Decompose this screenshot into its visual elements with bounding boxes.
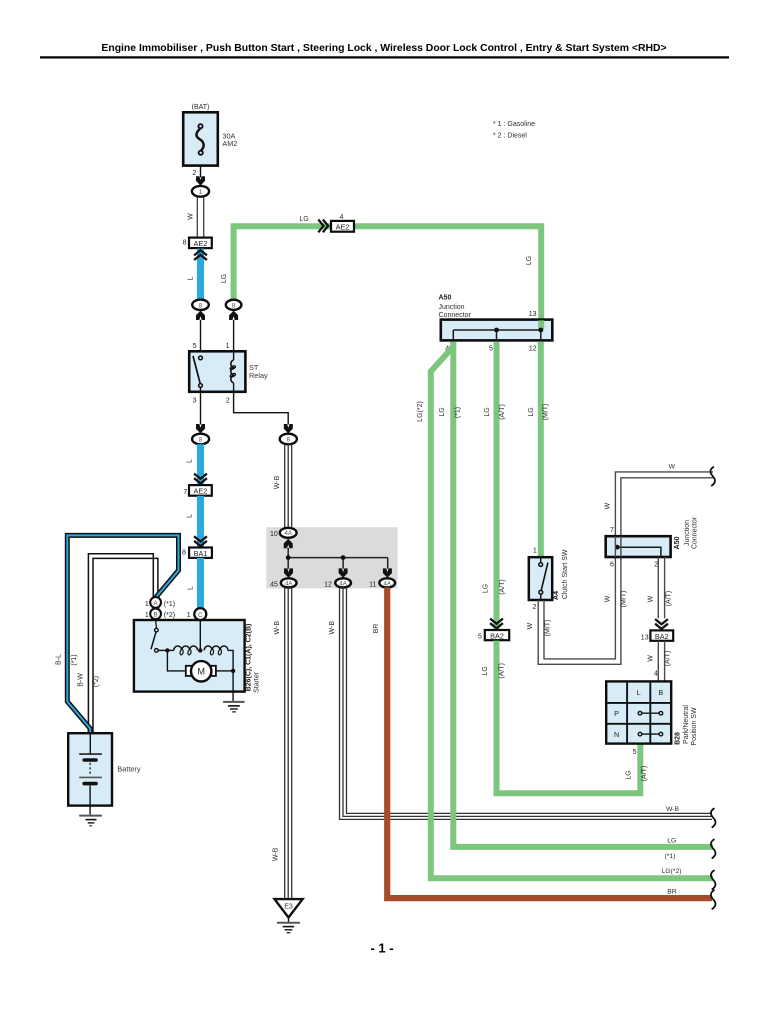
svg-text:LG: LG	[299, 216, 308, 223]
starter coil 1	[174, 646, 198, 650]
wire to relay pin 1	[233, 320, 235, 352]
svg-text:(M/T): (M/T)	[543, 404, 550, 421]
wire relay pin2 to right	[234, 392, 289, 425]
svg-text:1: 1	[533, 548, 537, 555]
arrow into connector 1	[196, 176, 205, 185]
connector AE2 (8)	[189, 238, 212, 249]
break symbol W-B	[711, 808, 716, 827]
ground E3	[275, 899, 303, 917]
wire W (M/T) double line	[544, 472, 713, 659]
wire W-B triple to E3	[285, 587, 292, 899]
svg-text:W: W	[604, 595, 611, 602]
starter box	[134, 620, 245, 692]
motor brushes	[186, 666, 192, 676]
wire LG (A/T) upper	[494, 342, 500, 630]
svg-text:B26(C), C1(A), C2(B): B26(C), C1(A), C2(B)	[246, 624, 253, 692]
break symbol BR	[711, 890, 716, 909]
svg-text:(A/T): (A/T)	[499, 404, 506, 420]
svg-text:13: 13	[641, 634, 649, 641]
wire LG(*2) branch	[431, 342, 713, 878]
wire B-W inner hook	[88, 554, 153, 733]
wire LG (M/T) to clutch SW	[538, 342, 544, 557]
svg-text:(BAT): (BAT)	[192, 104, 210, 111]
blue wire to C	[197, 558, 204, 608]
chevrons below AE2	[194, 250, 207, 260]
wire to relay pin 5	[200, 320, 202, 356]
A50-2 through lines redrawn over box	[614, 536, 616, 557]
svg-text:B: B	[154, 611, 158, 618]
svg-text:LG: LG	[484, 407, 491, 416]
svg-text:W: W	[648, 655, 655, 662]
svg-text:B: B	[658, 688, 663, 697]
arrow into ellipse 8 right	[284, 424, 293, 433]
svg-text:Junction: Junction	[439, 304, 465, 311]
svg-text:Position SW: Position SW	[691, 707, 698, 746]
svg-text:8: 8	[182, 549, 186, 556]
svg-text:(A/T): (A/T)	[665, 651, 672, 667]
svg-text:4A: 4A	[383, 580, 391, 587]
relay switch	[193, 356, 200, 384]
svg-text:5: 5	[489, 345, 493, 352]
arrow below green ellipse 8	[229, 311, 238, 320]
svg-text:Starter: Starter	[253, 671, 260, 693]
svg-text:W: W	[605, 502, 612, 509]
svg-text:BR: BR	[373, 624, 380, 634]
svg-text:A50: A50	[439, 295, 452, 302]
svg-text:AE2: AE2	[194, 487, 208, 496]
A50 junction connector box	[441, 320, 553, 341]
svg-text:BA1: BA1	[194, 549, 208, 558]
junction block grey box	[266, 527, 397, 588]
svg-text:BR: BR	[667, 889, 677, 896]
battery ground	[79, 815, 102, 817]
chevrons above BA1	[194, 536, 207, 546]
break symbol LG(*2)	[711, 870, 716, 889]
svg-text:* 2 : Diesel: * 2 : Diesel	[493, 133, 527, 140]
svg-text:7: 7	[183, 489, 187, 496]
svg-text:4A: 4A	[339, 580, 347, 587]
svg-text:(A/T): (A/T)	[641, 766, 648, 782]
wire relay pin3 down	[200, 392, 202, 425]
connector ellipse 8 right	[280, 434, 297, 445]
blue wire below ellipse	[197, 444, 204, 485]
battery cells	[89, 733, 91, 753]
wire L blue	[197, 249, 204, 300]
wire from C into coil junction	[199, 620, 201, 650]
svg-text:W-B: W-B	[273, 847, 280, 861]
svg-text:L: L	[187, 459, 194, 463]
chevrons above BA2(13)	[655, 619, 668, 629]
svg-text:N: N	[614, 730, 619, 739]
svg-text:Connector: Connector	[692, 516, 699, 549]
svg-text:3: 3	[193, 397, 197, 404]
svg-text:7: 7	[610, 527, 614, 534]
connector ellipse 8 (green)	[226, 300, 242, 310]
title underline	[40, 56, 729, 58]
svg-text:BA2: BA2	[655, 632, 669, 641]
clutch SW contacts	[540, 557, 542, 562]
svg-text:5: 5	[193, 343, 197, 350]
connector BA1	[189, 548, 212, 558]
svg-text:2: 2	[532, 604, 536, 611]
break symbol W	[710, 467, 715, 486]
svg-text:- 1 -: - 1 -	[370, 941, 393, 956]
svg-text:(A/T): (A/T)	[499, 579, 506, 595]
connector AE2 (4)	[331, 221, 354, 232]
wire W (A/T) from A50-2 pin 2	[657, 557, 659, 618]
arrows into bottom 4A ellipses	[284, 568, 293, 577]
svg-text:1: 1	[145, 612, 149, 619]
svg-text:P: P	[614, 709, 619, 718]
starter coil 2	[204, 646, 228, 650]
starter wire to coil junction	[158, 649, 174, 651]
arrow below 4A(10)	[284, 539, 293, 548]
svg-text:13: 13	[529, 311, 537, 318]
motor M	[191, 661, 211, 681]
connector ellipse 1	[192, 186, 209, 197]
svg-text:Junction: Junction	[684, 520, 691, 546]
svg-text:1: 1	[187, 612, 191, 619]
park/neutral position SW grid	[606, 681, 671, 743]
svg-text:W: W	[527, 622, 534, 629]
svg-text:4: 4	[654, 671, 658, 678]
svg-text:* 1 : Gasoline: * 1 : Gasoline	[493, 121, 535, 128]
svg-text:LG: LG	[528, 407, 535, 416]
ST relay box	[189, 351, 245, 392]
svg-text:12: 12	[324, 581, 332, 588]
svg-text:Battery: Battery	[117, 764, 140, 773]
svg-text:45: 45	[270, 581, 278, 588]
svg-text:L: L	[188, 276, 195, 280]
clutch start SW box	[529, 557, 552, 600]
A50-2 internal wire	[617, 547, 661, 557]
svg-text:1: 1	[226, 343, 230, 350]
starter switch	[155, 619, 158, 628]
connector ellipse 4A (12)	[335, 578, 351, 587]
wire B-L outer hook	[67, 535, 178, 733]
svg-text:8: 8	[183, 239, 187, 246]
coil to right junction	[228, 650, 233, 691]
svg-text:L: L	[187, 514, 194, 518]
PNP N row contacts	[640, 733, 661, 735]
svg-text:A4: A4	[553, 591, 560, 600]
svg-text:W-B: W-B	[666, 806, 680, 813]
svg-text:LG: LG	[625, 770, 632, 779]
svg-text:L: L	[637, 688, 641, 697]
break symbol LG	[711, 839, 716, 858]
internal wires of junction block	[288, 548, 388, 569]
svg-text:LG(*2): LG(*2)	[661, 868, 681, 875]
wire W-B triple from ellipse8 to 4A	[285, 444, 292, 528]
svg-text:E3: E3	[284, 903, 293, 910]
svg-text:B-W: B-W	[77, 673, 84, 687]
svg-text:Park/Neutral: Park/Neutral	[683, 705, 690, 744]
svg-text:LG: LG	[483, 584, 490, 593]
svg-text:Engine Immobiliser , Push Butt: Engine Immobiliser , Push Button Start ,…	[101, 43, 666, 54]
A50 junction connector 2 box	[606, 536, 671, 557]
svg-text:W-B: W-B	[274, 621, 281, 635]
green LG top path	[234, 226, 542, 319]
chevrons above AE2(7)	[194, 474, 207, 484]
svg-text:(*1): (*1)	[455, 407, 462, 418]
svg-text:(M/T): (M/T)	[621, 591, 628, 608]
connector ellipse 8 (blue)	[192, 300, 209, 310]
svg-text:LG: LG	[221, 274, 228, 283]
connector ellipse 4A (10)	[280, 528, 297, 538]
svg-text:(*1): (*1)	[665, 853, 676, 860]
svg-text:B28: B28	[674, 732, 681, 745]
connector BA2 (13)	[650, 630, 673, 640]
svg-text:5: 5	[478, 634, 482, 641]
svg-text:1: 1	[145, 601, 149, 608]
svg-text:(*1): (*1)	[71, 654, 78, 665]
svg-text:W-B: W-B	[274, 475, 281, 489]
arrow below ellipse 8	[196, 311, 205, 320]
chevrons above BA2(5)	[490, 619, 503, 629]
svg-text:Clutch Start SW: Clutch Start SW	[562, 549, 569, 599]
svg-text:A50: A50	[674, 536, 681, 549]
svg-text:LG: LG	[526, 256, 533, 265]
wire LG (A/T) lower with corners	[497, 641, 641, 794]
wire BR from 4A(11)	[387, 587, 712, 898]
svg-text:Relay: Relay	[249, 371, 268, 380]
svg-text:AM2: AM2	[222, 139, 237, 148]
connector BA2 (5)	[485, 630, 509, 640]
connector AE2 (7)	[189, 485, 212, 496]
svg-text:(A/T): (A/T)	[665, 591, 672, 607]
wire W double line	[196, 197, 198, 238]
connector ellipse 8	[192, 434, 209, 445]
svg-text:LG: LG	[667, 837, 676, 844]
svg-text:W: W	[187, 213, 194, 220]
wire W (A/T) to PNP	[657, 641, 659, 682]
svg-text:LG: LG	[482, 666, 489, 675]
svg-text:W: W	[669, 463, 676, 470]
svg-text:C: C	[198, 612, 203, 619]
svg-text:4A: 4A	[285, 580, 293, 587]
svg-text:2: 2	[654, 561, 658, 568]
fuse AM2 box	[183, 112, 218, 165]
svg-text:(A/T): (A/T)	[498, 663, 505, 679]
battery box	[68, 733, 112, 805]
svg-text:AE2: AE2	[336, 223, 350, 232]
starter ground	[232, 692, 234, 701]
svg-text:4A: 4A	[284, 530, 292, 537]
left branch to motor	[167, 650, 185, 671]
svg-text:Connector: Connector	[439, 312, 472, 319]
svg-text:LG: LG	[439, 407, 446, 416]
svg-text:5: 5	[633, 749, 637, 756]
wire LG(*1)	[453, 342, 713, 847]
svg-text:6: 6	[610, 562, 614, 569]
svg-text:LG(*2): LG(*2)	[417, 401, 424, 422]
relay coil	[233, 351, 235, 360]
svg-text:(*2): (*2)	[93, 676, 100, 687]
svg-text:2: 2	[192, 170, 196, 177]
svg-text:AE2: AE2	[194, 239, 208, 248]
fuse element	[196, 128, 203, 151]
blue wire	[197, 496, 204, 548]
svg-text:12: 12	[529, 345, 537, 352]
connector ellipse 4A (45)	[281, 578, 297, 587]
wire W-B triple from 4A(12) with corner	[340, 587, 713, 819]
wire LG pin13 inside box	[538, 320, 544, 330]
A50 internal wires	[453, 330, 541, 340]
svg-text:B-L: B-L	[56, 654, 63, 665]
PNP P row contacts	[640, 712, 661, 714]
svg-text:L: L	[187, 586, 194, 590]
arrow into ellipse 8	[196, 424, 205, 433]
wire fuse to connector 1	[200, 166, 202, 178]
svg-text:(M/T): (M/T)	[545, 620, 552, 637]
svg-text:10: 10	[270, 531, 278, 538]
svg-text:2: 2	[226, 397, 230, 404]
connector ellipse 4A (11)	[379, 578, 395, 587]
chevrons before AE2(4)	[318, 220, 328, 233]
svg-text:W-B: W-B	[329, 621, 336, 635]
svg-text:M: M	[197, 667, 205, 677]
svg-text:11: 11	[369, 581, 376, 588]
svg-text:(*1): (*1)	[164, 601, 175, 608]
svg-text:(*2): (*2)	[164, 612, 175, 619]
svg-text:W: W	[647, 595, 654, 602]
svg-text:BA2: BA2	[490, 631, 504, 640]
